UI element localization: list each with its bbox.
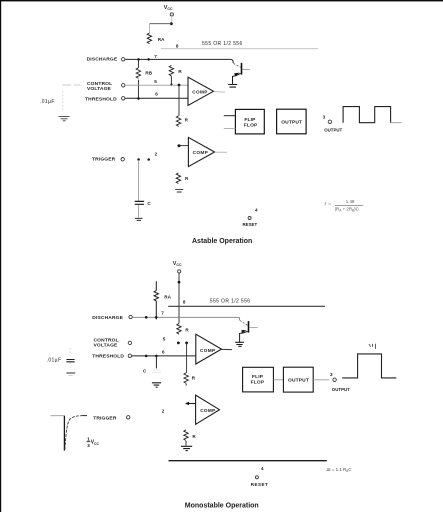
- svg-text:=: =: [328, 201, 331, 206]
- capacitor .01uF (astable, faded): [40, 85, 81, 121]
- terminal TRIGGER (mono): [127, 416, 130, 419]
- wire 555 top boundary (monostable): [168, 305, 325, 307]
- waveform square wave (astable): [343, 107, 391, 123]
- junction dot node B + wire to COMP2: [178, 144, 189, 147]
- wire 555 bottom boundary (monostable): [169, 460, 327, 462]
- node VCC label (astable): [164, 5, 173, 11]
- svg-text:6: 6: [155, 91, 158, 96]
- svg-text:COMP: COMP: [200, 408, 215, 413]
- svg-text:FLIP: FLIP: [244, 117, 256, 123]
- junction dot threshold 2 (mono): [155, 355, 158, 358]
- svg-text:5: 5: [163, 336, 166, 341]
- wire divider CV to R2: [178, 85, 180, 116]
- transistor Q1 discharge (monostable): [240, 320, 258, 342]
- svg-text:4: 4: [255, 207, 258, 212]
- svg-text:555 OR 1/2 556: 555 OR 1/2 556: [210, 298, 251, 304]
- svg-text:.01µF: .01µF: [40, 99, 55, 105]
- wire VCC down (monostable): [178, 273, 180, 323]
- wire COMP1 output: [214, 91, 226, 94]
- junction dot discharge 2 (mono): [155, 316, 158, 319]
- terminal RESET (mono): [255, 476, 258, 479]
- wire COMP2 output: [215, 151, 227, 153]
- wire COMP1 output (mono): [222, 348, 233, 350]
- junction dot threshold 1 (mono): [145, 355, 148, 358]
- svg-text:OUTPUT: OUTPUT: [332, 387, 350, 392]
- svg-text:3: 3: [323, 115, 326, 120]
- svg-text:1.49: 1.49: [346, 199, 355, 204]
- terminal RESET (astable): [248, 217, 251, 220]
- terminal CONTROL VOLTAGE: [122, 84, 125, 87]
- wire threshold line (mono): [132, 355, 196, 357]
- svg-text:Monostable Operation: Monostable Operation: [185, 502, 259, 509]
- resistor R1 internal (monostable): [177, 324, 190, 335]
- box FLIP FLOP (monostable): [243, 367, 274, 392]
- svg-text:5: 5: [154, 79, 157, 84]
- wire divider down (mono): [186, 343, 188, 373]
- svg-text:FLIP: FLIP: [252, 374, 264, 380]
- resistor RA (astable): [147, 33, 165, 44]
- resistor R lower (astable): [176, 173, 189, 184]
- label t marker above pulse: [369, 344, 376, 349]
- svg-text:VOLTAGE: VOLTAGE: [94, 342, 119, 348]
- capacitor .01uF (monostable): [47, 348, 76, 375]
- junction dot discharge 1: [137, 58, 140, 61]
- terminal TRIGGER: [121, 158, 124, 161]
- wire VCC horizontal: [150, 23, 172, 25]
- svg-text:VOLTAGE: VOLTAGE: [87, 86, 112, 92]
- svg-text:TRIGGER: TRIGGER: [92, 157, 116, 163]
- svg-text:THRESHOLD: THRESHOLD: [92, 354, 124, 360]
- ground below R lower (astable): [175, 190, 183, 192]
- op-amp COMP2 (astable): [188, 137, 214, 166]
- wire discharge line (astable): [125, 59, 233, 63]
- svg-text:8: 8: [183, 299, 186, 304]
- svg-text:OUTPUT: OUTPUT: [288, 378, 309, 384]
- terminal DISCHARGE (astable): [122, 58, 125, 61]
- wire FF input stub upper: [224, 115, 236, 117]
- svg-text:3: 3: [330, 372, 333, 377]
- capacitor C (astable): [135, 201, 152, 206]
- wire control voltage line: [125, 84, 188, 86]
- capacitor C (monostable): [143, 356, 161, 374]
- svg-text:7: 7: [154, 54, 157, 59]
- op-amp COMP2 (monostable): [196, 395, 220, 424]
- junction dot CV 1 (mono): [177, 342, 180, 345]
- waveform trigger pulse (monostable): [51, 416, 88, 451]
- page border left: [0, 0, 1, 512]
- ground below Q1 (monostable): [235, 342, 244, 346]
- op-amp COMP1 (monostable): [196, 334, 222, 364]
- wire FF to OUTPUT box (mono): [273, 379, 283, 381]
- svg-text:FLOP: FLOP: [251, 380, 265, 386]
- svg-text:2: 2: [155, 152, 158, 157]
- wire capacitor to ground: [138, 205, 140, 218]
- wire output line (mono): [313, 379, 329, 381]
- resistor R top-right (astable): [169, 65, 182, 86]
- svg-text:COMP: COMP: [200, 348, 215, 353]
- resistor R middle (astable): [176, 116, 188, 127]
- svg-text:8: 8: [176, 43, 179, 48]
- terminal DISCHARGE (monostable): [129, 315, 132, 318]
- svg-text:3: 3: [87, 443, 90, 449]
- svg-text:Astable Operation: Astable Operation: [192, 238, 252, 245]
- svg-text:7: 7: [161, 311, 164, 316]
- wire trigger to capacitor: [138, 160, 140, 201]
- junction dot trigger 2: [147, 158, 150, 161]
- svg-text:TRIGGER: TRIGGER: [93, 415, 117, 421]
- wire discharge line (monostable): [132, 317, 239, 320]
- svg-text:OUTPUT: OUTPUT: [324, 127, 342, 132]
- page border top: [0, 0, 443, 1]
- resistor RB (astable): [136, 59, 153, 98]
- op-amp COMP1 (astable): [188, 77, 214, 105]
- resistor RA (monostable): [154, 281, 172, 319]
- terminal VCC (monostable): [178, 270, 181, 273]
- svg-text:FLOP: FLOP: [244, 123, 258, 129]
- svg-text:RB: RB: [145, 71, 152, 76]
- junction dot discharge 2: [147, 58, 150, 61]
- box FLIP FLOP (astable): [235, 109, 264, 133]
- wire VCC terminal to corner: [171, 16, 173, 23]
- resistor R3 internal (monostable): [184, 430, 197, 446]
- wire threshold line: [125, 97, 188, 99]
- resistor R2 internal (monostable): [184, 373, 196, 386]
- svg-text:DISCHARGE: DISCHARGE: [92, 315, 123, 321]
- terminal output (mono): [333, 378, 336, 381]
- svg-text:6: 6: [162, 349, 165, 354]
- svg-text:2: 2: [162, 408, 165, 413]
- wire arrow into COMP2 (mono): [185, 402, 196, 406]
- label 1/3 VCC: [87, 437, 100, 449]
- svg-text:THRESHOLD: THRESHOLD: [85, 96, 117, 102]
- junction dot discharge 1 (mono): [145, 316, 148, 319]
- junction dot VCC (monostable): [178, 281, 181, 284]
- ground below R3 (monostable): [181, 446, 192, 450]
- svg-text:RESET: RESET: [243, 222, 258, 227]
- ground below C (monostable): [152, 383, 161, 387]
- terminal THRESHOLD: [122, 97, 125, 100]
- terminal THRESHOLD (mono): [128, 354, 131, 357]
- svg-text:RESET: RESET: [251, 482, 269, 487]
- svg-text:COMP: COMP: [192, 90, 207, 95]
- svg-text:DISCHARGE: DISCHARGE: [87, 57, 118, 63]
- box OUTPUT (monostable): [283, 367, 313, 392]
- terminal VCC (astable): [170, 13, 173, 16]
- terminal output (astable): [328, 120, 331, 123]
- formula f = 1.49/((RA+2RB)C): [325, 199, 364, 213]
- ground below Q1 (astable): [228, 85, 237, 88]
- junction dot trigger 1: [137, 158, 140, 161]
- svg-text:RA: RA: [164, 295, 171, 300]
- wire FF input stub lower: [224, 128, 236, 130]
- wire down to RA: [149, 24, 151, 33]
- terminal CONTROL VOLTAGE (mono): [128, 341, 131, 344]
- box OUTPUT (astable): [277, 109, 307, 134]
- junction dot at VCC wire: [170, 22, 173, 25]
- junction dot CV node: [178, 84, 181, 87]
- waveform output pulse (monostable): [342, 354, 396, 378]
- junction dot CV 2 (mono): [185, 342, 188, 345]
- svg-text:RA: RA: [158, 37, 165, 42]
- transistor Q1 discharge (astable): [233, 63, 251, 84]
- junction dot threshold: [137, 97, 140, 100]
- wire 555 top boundary (astable): [161, 48, 318, 50]
- ground below C (astable): [135, 218, 143, 220]
- svg-text:4: 4: [261, 466, 264, 471]
- svg-text:COMP: COMP: [193, 150, 208, 155]
- svg-text:OUTPUT: OUTPUT: [281, 120, 302, 126]
- svg-text:555 OR 1/2 556: 555 OR 1/2 556: [202, 41, 243, 47]
- svg-text:.01µF: .01µF: [47, 357, 62, 363]
